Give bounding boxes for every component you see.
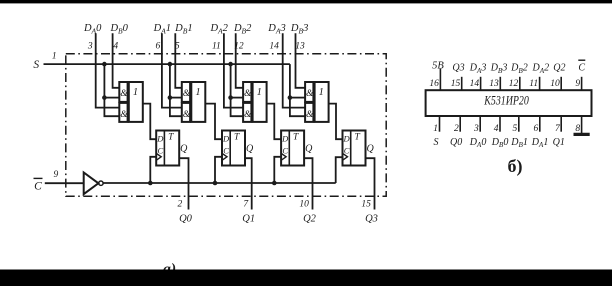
wire Q2 output <box>304 158 312 209</box>
wire OR out to D input FF2 <box>267 104 282 140</box>
IC package body K531IR20 <box>426 90 592 116</box>
svg-text:C: C <box>34 181 42 193</box>
wire D_B2 to AND <box>236 33 243 88</box>
wire D_B3 to AND <box>296 33 306 88</box>
AND gate top cell 1 <box>182 82 191 102</box>
pin 6 lead <box>539 116 541 132</box>
svg-text:&: & <box>244 89 252 99</box>
AND gate top cell 2 <box>243 82 252 102</box>
D flip-flop T2 <box>281 131 304 166</box>
wire S branch cell 2 <box>231 64 244 116</box>
wire D_A2 to AND <box>224 33 243 107</box>
AND gate top cell 3 <box>305 82 314 102</box>
wire S bus <box>44 63 290 65</box>
svg-text:15: 15 <box>451 79 461 89</box>
node S junction cell 2 <box>228 62 233 67</box>
node S split cell 3 <box>288 95 293 100</box>
AND gate bottom cell 1 <box>182 103 191 122</box>
svg-text:К531ИР20: К531ИР20 <box>484 93 530 107</box>
OR gate cell 0 <box>129 82 143 122</box>
pin 5 lead <box>518 116 520 132</box>
wire S branch cell 3 <box>290 64 305 116</box>
svg-text:Q: Q <box>246 144 254 155</box>
pin 8 lead <box>581 116 583 133</box>
svg-text:15: 15 <box>361 200 371 210</box>
svg-text:1: 1 <box>257 87 262 98</box>
wire C bus riser FF0 <box>150 157 156 183</box>
label C-bar (pin 9) <box>578 60 585 73</box>
wire OR out to D input FF3 <box>329 104 343 140</box>
wire Q3 output <box>366 158 375 209</box>
svg-text:&: & <box>183 89 191 99</box>
svg-text:Q1: Q1 <box>242 214 255 225</box>
svg-text:16: 16 <box>429 79 439 89</box>
AND gate bottom cell 3 <box>305 103 314 122</box>
wire C input <box>45 182 84 184</box>
svg-text:S: S <box>434 137 439 148</box>
pin 14 lead <box>480 77 482 90</box>
wire OR out to D input FF0 <box>143 104 156 140</box>
wire S branch cell 0 <box>104 64 119 116</box>
D flip-flop T3 <box>343 131 366 166</box>
wire D_B0 to AND <box>113 33 120 88</box>
svg-text:9: 9 <box>575 79 580 89</box>
svg-text:3: 3 <box>87 42 93 52</box>
svg-text:4: 4 <box>494 124 499 134</box>
pin 1 lead <box>439 116 441 132</box>
svg-text:Q2: Q2 <box>553 63 565 74</box>
svg-text:T: T <box>354 133 360 143</box>
pin 9 lead <box>581 77 583 90</box>
wire D_B1 to AND <box>175 33 182 88</box>
svg-text:б): б) <box>508 156 523 177</box>
D flip-flop T1 <box>222 131 245 166</box>
svg-text:1: 1 <box>52 52 57 62</box>
wire OR out to D input FF1 <box>205 104 222 140</box>
svg-text:S: S <box>33 59 39 71</box>
svg-text:D: D <box>281 134 289 144</box>
wire Q0 output <box>179 158 188 209</box>
ground symbol (pin 8) <box>574 133 590 136</box>
svg-text:D: D <box>222 134 230 144</box>
node S split cell 0 <box>102 95 107 100</box>
svg-text:Q: Q <box>305 144 313 155</box>
svg-text:Q0: Q0 <box>450 137 462 148</box>
node C bus junction FF2 <box>272 181 277 186</box>
svg-text:4: 4 <box>113 42 118 52</box>
wire D_A3 to AND <box>283 33 305 107</box>
OR gate cell 1 <box>191 82 205 122</box>
node S junction cell 0 <box>102 62 107 67</box>
svg-text:5: 5 <box>513 124 518 134</box>
OR gate cell 2 <box>253 82 267 122</box>
pin 2 lead <box>459 116 461 132</box>
AND gate top cell 0 <box>119 82 128 102</box>
svg-text:Q1: Q1 <box>553 137 565 148</box>
svg-text:Q3: Q3 <box>452 63 464 74</box>
AND gate bottom cell 2 <box>243 103 252 122</box>
svg-text:Q2: Q2 <box>303 214 317 225</box>
node C bus junction FF1 <box>213 181 218 186</box>
svg-text:Q0: Q0 <box>179 214 193 225</box>
svg-text:13: 13 <box>489 79 499 89</box>
svg-text:3: 3 <box>473 124 479 134</box>
pin 4 lead <box>499 116 501 132</box>
pin 7 lead <box>560 116 562 132</box>
svg-text:Q: Q <box>180 144 188 155</box>
svg-text:Q3: Q3 <box>365 214 378 225</box>
svg-text:&: & <box>244 110 252 120</box>
svg-text:T: T <box>234 133 240 143</box>
IC boundary dashed box (device a) <box>66 54 386 197</box>
svg-text:10: 10 <box>550 79 560 89</box>
svg-text:1: 1 <box>433 124 438 134</box>
svg-text:&: & <box>306 89 314 99</box>
input label C-bar <box>34 178 43 192</box>
svg-text:1: 1 <box>319 87 324 98</box>
svg-text:12: 12 <box>509 79 519 89</box>
wire Q1 output <box>245 158 252 209</box>
svg-text:T: T <box>293 133 299 143</box>
pin 11 lead <box>539 77 541 90</box>
AND gate bottom cell 0 <box>119 103 128 122</box>
node S junction cell 1 <box>168 62 173 67</box>
pin 15 lead <box>461 77 463 90</box>
node C bus junction FF0 <box>148 181 153 186</box>
svg-text:11: 11 <box>529 79 538 89</box>
pin 16 lead <box>439 69 441 90</box>
svg-text:1: 1 <box>133 87 138 98</box>
OR gate cell 3 <box>315 82 329 122</box>
svg-text:8: 8 <box>575 124 580 134</box>
svg-text:11: 11 <box>212 42 221 52</box>
svg-text:13: 13 <box>295 42 305 52</box>
svg-text:&: & <box>183 110 191 120</box>
wire C bus riser FF3 <box>336 157 343 183</box>
svg-text:14: 14 <box>269 42 279 52</box>
svg-text:6: 6 <box>156 42 161 52</box>
wire C bus riser FF2 <box>274 157 281 183</box>
svg-text:2: 2 <box>178 200 183 210</box>
D flip-flop T0 <box>156 131 179 166</box>
inverter (clock buffer) <box>84 173 99 195</box>
node S split cell 2 <box>228 95 233 100</box>
wire D_A0 to AND <box>96 33 120 107</box>
wire D_A1 to AND <box>162 33 182 107</box>
pin 13 lead <box>499 77 501 90</box>
wire C bus <box>103 182 336 184</box>
svg-text:6: 6 <box>534 124 539 134</box>
svg-text:14: 14 <box>470 79 480 89</box>
svg-text:2: 2 <box>454 124 459 134</box>
pin 12 lead <box>519 77 521 90</box>
svg-text:C: C <box>578 63 585 74</box>
svg-text:Q: Q <box>366 144 374 155</box>
svg-text:9: 9 <box>54 170 59 180</box>
wire C bus riser FF1 <box>215 157 222 183</box>
svg-text:5В: 5В <box>432 60 444 71</box>
svg-text:D: D <box>156 134 164 144</box>
svg-text:10: 10 <box>299 200 309 210</box>
svg-text:&: & <box>306 110 314 120</box>
svg-text:D: D <box>343 134 351 144</box>
svg-text:T: T <box>168 133 174 143</box>
pin 3 lead <box>479 116 481 132</box>
pin 10 lead <box>560 77 562 90</box>
svg-text:1: 1 <box>195 87 200 98</box>
wire S branch cell 1 <box>170 64 182 116</box>
svg-text:&: & <box>120 89 128 99</box>
node S split cell 1 <box>168 95 173 100</box>
svg-text:&: & <box>120 110 128 120</box>
